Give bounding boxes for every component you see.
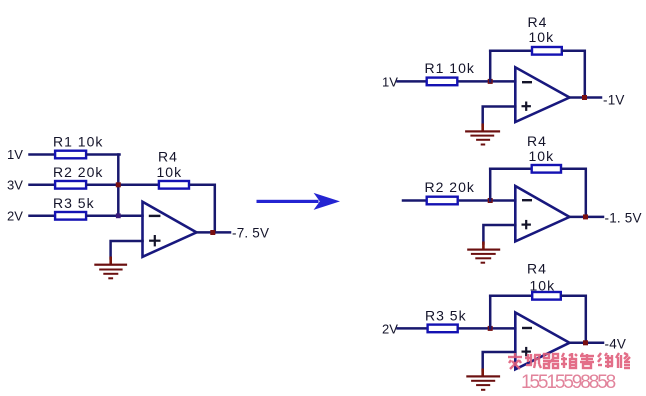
wire R1 to op-amp (A) (460, 80, 516, 83)
svg-text:10k: 10k (529, 29, 555, 45)
svg-text:-4V: -4V (605, 337, 627, 352)
resistor R4 (B) (532, 165, 561, 173)
resistor R2 (B) (427, 197, 458, 205)
watermark chinese text (508, 353, 630, 369)
node junction bus/R3 (116, 213, 121, 218)
op-amp U1 (143, 202, 197, 257)
resistor R1 (A) (427, 78, 458, 86)
resistor R3 (C) (428, 325, 458, 333)
wire output (197, 231, 231, 234)
svg-text:R3 5k: R3 5k (53, 195, 95, 211)
wire output (B) (570, 216, 604, 219)
wire R2 to op-amp (B) (460, 199, 515, 202)
wire non-inverting input to ground (B) (483, 225, 515, 244)
wire R4 to output (191, 185, 215, 233)
node inverting input (C) (488, 326, 493, 331)
node output -1V (582, 95, 587, 100)
wire R4 to output (A) (563, 51, 585, 98)
ground (circuit C) (466, 369, 500, 391)
op-amp U2 (515, 67, 569, 122)
node inverting input (A) (488, 79, 493, 84)
resistor R1 (55, 151, 86, 159)
wire R4 to output (B) (563, 169, 586, 217)
resistor R2 (55, 181, 86, 189)
svg-text:2V: 2V (382, 322, 398, 337)
wire feedback left vertical (C) (489, 296, 492, 329)
svg-text:-7. 5V: -7. 5V (232, 225, 269, 240)
wire R2 to R4 (88, 184, 159, 187)
char 器 (543, 354, 559, 368)
pin plus U1 (150, 236, 159, 245)
node output -7.5V (210, 230, 215, 235)
wire non-inverting input to ground (A) (483, 107, 516, 126)
pin minus U3 (523, 199, 531, 201)
svg-text:R4: R4 (527, 133, 547, 149)
pin minus U2 (523, 81, 531, 83)
pin minus U4 (523, 327, 531, 329)
wire non-inverting input to ground (C) (483, 352, 516, 371)
wire R3 to op-amp inverting input (88, 215, 143, 218)
svg-text:R4: R4 (528, 14, 548, 30)
resistor R3 (55, 212, 86, 220)
pin plus U4 (523, 348, 530, 355)
pin minus U1 (150, 215, 159, 217)
svg-text:R2 20k: R2 20k (53, 164, 103, 180)
wire 1V input (A) (398, 80, 426, 83)
svg-text:R2 20k: R2 20k (425, 179, 475, 195)
char 销 (561, 353, 577, 368)
char 变 (508, 353, 522, 369)
wire non-inverting input to ground (111, 241, 143, 259)
wire feedback left vertical (A) (489, 51, 492, 82)
ground (circuit A) (465, 124, 500, 146)
svg-text:-1. 5V: -1. 5V (605, 210, 642, 225)
wire feedback left vertical (B) (489, 169, 492, 201)
op-amp U3 (515, 186, 569, 241)
wire R3 to op-amp (C) (459, 327, 515, 330)
svg-text:R1 10k: R1 10k (53, 134, 103, 150)
svg-text:-1V: -1V (603, 92, 625, 107)
wire feedback to R4 (B) (490, 168, 530, 171)
wire 2V input (30, 215, 54, 218)
node output -1.5V (583, 214, 588, 219)
wire R1 to bus (88, 153, 120, 156)
resistor R4 (A) (532, 47, 562, 55)
arrow (257, 193, 341, 210)
svg-text:R4: R4 (158, 149, 178, 165)
wire R4 to output (C) (562, 296, 586, 343)
svg-text:R1 10k: R1 10k (425, 60, 475, 76)
node inverting input (B) (488, 198, 493, 203)
svg-text:2V: 2V (7, 208, 23, 223)
resistor R4 (C) (532, 292, 561, 300)
pin plus U3 (523, 221, 530, 228)
char 频 (525, 354, 541, 368)
wire output (C) (570, 342, 604, 345)
svg-text:1V: 1V (7, 147, 23, 162)
wire 2V input (C) (398, 327, 427, 330)
ground (circuit B) (467, 242, 500, 264)
svg-text:1V: 1V (382, 75, 398, 90)
node output -4V (583, 340, 588, 345)
svg-text:3V: 3V (7, 177, 23, 192)
wire bus vertical (117, 155, 120, 216)
svg-text:10k: 10k (157, 164, 183, 180)
char 修 (616, 353, 630, 368)
char 售 (580, 353, 594, 368)
op-amp U4 (515, 313, 569, 370)
wire input (B) (403, 199, 426, 202)
svg-text:R3 5k: R3 5k (425, 308, 467, 324)
node junction bus/R2 (116, 182, 121, 187)
wire feedback to R4 (C) (490, 295, 531, 298)
wire feedback to R4 (A) (490, 50, 531, 53)
svg-text:R4: R4 (527, 261, 547, 277)
ground (left op-amp) (94, 257, 127, 280)
svg-text:15515598858: 15515598858 (521, 372, 616, 393)
wire output (A) (570, 96, 602, 99)
char 维 (598, 353, 613, 368)
wire 1V input (30, 153, 54, 156)
wire 3V input (30, 184, 54, 187)
svg-text:10k: 10k (529, 148, 555, 164)
resistor R4 feedback (159, 181, 189, 189)
pin plus U2 (523, 103, 530, 110)
